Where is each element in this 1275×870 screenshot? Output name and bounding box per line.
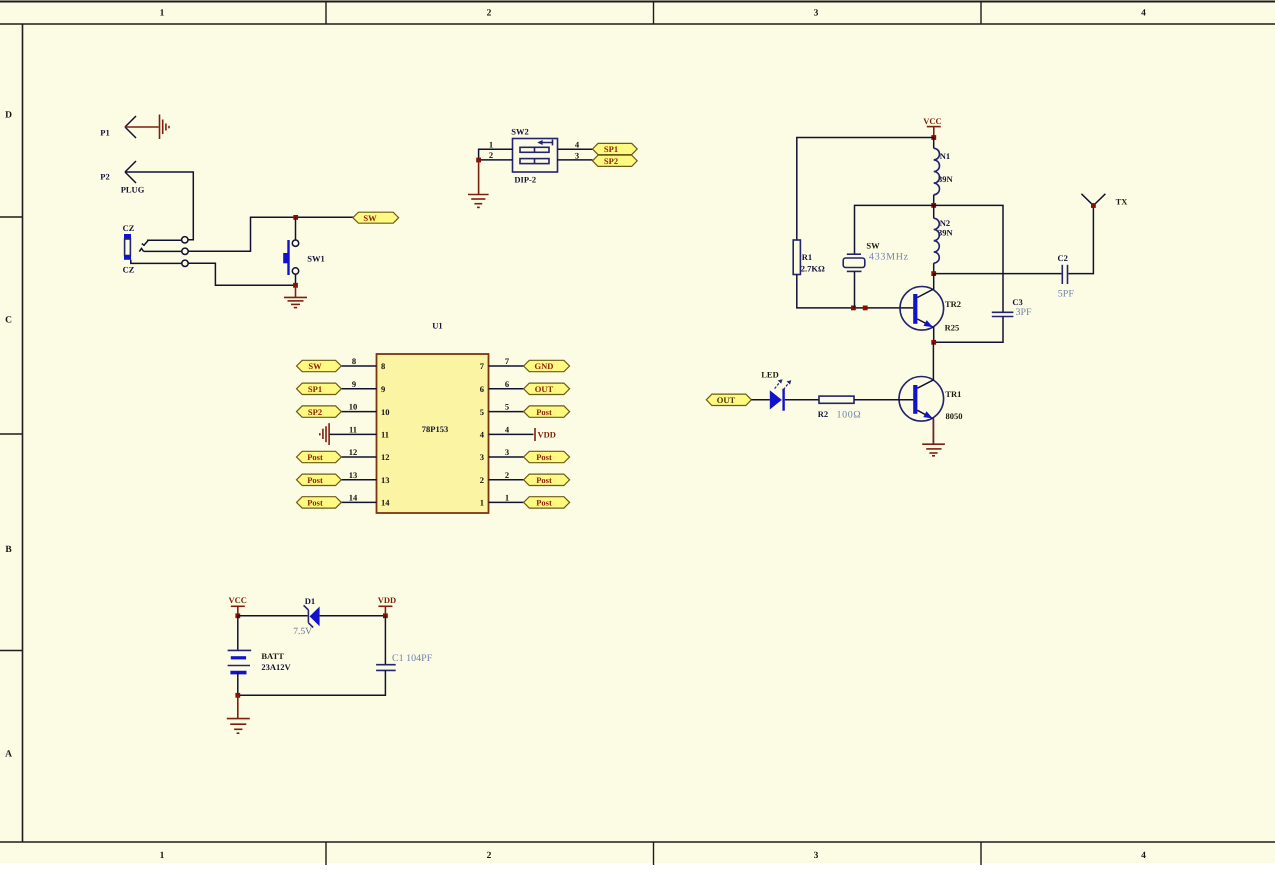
- svg-text:B: B: [5, 545, 12, 555]
- junction N1/N2: [931, 203, 936, 208]
- resistor R2: [818, 396, 862, 420]
- wire sleeve to SW1 bottom: [188, 263, 295, 285]
- port SP1: [593, 143, 638, 154]
- junction TR2 emitter / TR1 collector: [931, 340, 936, 345]
- pin 4 wire: [558, 140, 593, 150]
- svg-text:SW: SW: [866, 240, 880, 250]
- wire P2 to jack top contact: [125, 172, 193, 240]
- svg-text:11: 11: [349, 424, 357, 434]
- svg-text:100Ω: 100Ω: [837, 409, 862, 420]
- pin 2 wire: [479, 150, 513, 160]
- svg-text:6: 6: [505, 379, 509, 389]
- pin 1 wire: [479, 140, 513, 160]
- svg-text:12: 12: [381, 452, 390, 462]
- svg-text:14: 14: [349, 492, 358, 502]
- connector P2: [100, 161, 144, 195]
- junction N2 bottom: [931, 271, 936, 276]
- svg-text:6: 6: [480, 384, 484, 394]
- port Post at U1 pin2: [524, 474, 570, 485]
- wire LED to R2: [785, 399, 819, 401]
- svg-text:13: 13: [381, 475, 390, 485]
- svg-text:2: 2: [487, 9, 492, 19]
- jack ring contact: [139, 248, 188, 254]
- ground for P1: [125, 115, 169, 140]
- svg-text:CZ: CZ: [123, 223, 135, 233]
- wire junction to C3 top: [934, 205, 1003, 311]
- svg-text:5PF: 5PF: [1058, 288, 1075, 299]
- svg-text:Post: Post: [536, 498, 552, 508]
- wire D1 to VDD: [320, 615, 386, 617]
- port Post at U1 pin12: [297, 451, 342, 462]
- svg-text:SP2: SP2: [308, 407, 322, 417]
- junction at crystal bottom: [851, 306, 856, 311]
- svg-text:10: 10: [349, 402, 358, 412]
- junction below SW1: [293, 283, 298, 288]
- U1 pin 3: [480, 447, 524, 462]
- wire junction to crystal top: [855, 205, 934, 253]
- svg-text:5: 5: [480, 407, 484, 417]
- svg-text:3: 3: [575, 150, 579, 160]
- wire VCC to D1: [238, 615, 308, 617]
- svg-text:2: 2: [505, 470, 509, 480]
- LED: [761, 369, 791, 410]
- port OUT (LED drive): [706, 394, 751, 405]
- U1 pin 7: [480, 356, 524, 371]
- wire OUT to LED: [751, 399, 769, 401]
- battery BATT: [228, 616, 292, 696]
- port SP2 at U1 pin10: [297, 406, 342, 417]
- svg-text:A: A: [5, 750, 12, 760]
- svg-text:9: 9: [352, 379, 356, 389]
- port OUT at U1 pin6: [524, 383, 570, 394]
- jack sleeve contact: [131, 260, 188, 267]
- svg-text:P2: P2: [100, 172, 109, 182]
- svg-text:PLUG: PLUG: [121, 185, 145, 195]
- junction below VCC: [931, 135, 936, 140]
- svg-text:3: 3: [814, 851, 819, 861]
- svg-text:9: 9: [381, 384, 385, 394]
- svg-text:VDD: VDD: [378, 595, 396, 605]
- svg-text:1: 1: [160, 9, 165, 19]
- wire VDD down to C1: [384, 616, 386, 664]
- ground at pin 11: [320, 423, 329, 445]
- svg-text:TR1: TR1: [945, 389, 961, 399]
- svg-text:Post: Post: [307, 475, 323, 485]
- IC U1 78P153: [377, 320, 489, 513]
- port SW at U1 pin8: [297, 360, 342, 371]
- U1 pin 4 / VDD power: [480, 424, 556, 441]
- port Post at U1 pin3: [524, 451, 570, 462]
- svg-text:2: 2: [489, 150, 493, 160]
- pushbutton SW1: [283, 240, 325, 275]
- port SW: [353, 212, 399, 223]
- svg-text:R2: R2: [818, 409, 828, 419]
- svg-text:SW2: SW2: [511, 127, 528, 137]
- svg-text:Post: Post: [307, 498, 323, 508]
- svg-text:LED: LED: [761, 369, 778, 379]
- jack tip contact: [142, 237, 188, 246]
- wire C2 to antenna: [1068, 206, 1093, 274]
- svg-text:7.5V: 7.5V: [293, 627, 312, 637]
- svg-text:CZ: CZ: [123, 265, 135, 275]
- wire VCC to R1 top: [797, 138, 934, 241]
- inductor N2: [934, 205, 954, 273]
- svg-text:3: 3: [505, 447, 509, 457]
- U1 pin 10: [341, 402, 389, 417]
- wire ring contact to SW node: [188, 217, 295, 251]
- svg-text:8050: 8050: [946, 411, 963, 421]
- ground below TR1: [922, 419, 945, 456]
- svg-text:1: 1: [489, 140, 493, 150]
- transistor TR1: [899, 342, 963, 443]
- svg-text:SW: SW: [363, 213, 377, 223]
- svg-text:C: C: [5, 316, 12, 326]
- port Post at U1 pin5: [524, 406, 570, 417]
- svg-text:2: 2: [480, 475, 484, 485]
- svg-text:Post: Post: [536, 475, 552, 485]
- port GND at U1 pin7: [524, 360, 570, 371]
- svg-text:8: 8: [352, 356, 356, 366]
- svg-text:VDD: VDD: [538, 430, 556, 440]
- svg-text:2.7KΩ: 2.7KΩ: [801, 263, 825, 273]
- connector P1: [100, 116, 136, 138]
- svg-text:39N: 39N: [938, 174, 954, 184]
- DIP switch SW2: [511, 127, 557, 185]
- svg-text:U1: U1: [432, 320, 442, 330]
- svg-text:D1: D1: [305, 596, 315, 606]
- power VCC (RF): [923, 116, 941, 137]
- svg-text:Post: Post: [307, 452, 323, 462]
- resistor R1: [793, 240, 825, 275]
- svg-text:C1 104PF: C1 104PF: [392, 653, 433, 664]
- svg-text:39N: 39N: [938, 227, 954, 237]
- svg-text:VCC: VCC: [923, 116, 941, 126]
- svg-text:10: 10: [381, 407, 390, 417]
- svg-text:12: 12: [349, 447, 358, 457]
- U1 pin 11: [329, 424, 389, 439]
- svg-text:SW: SW: [308, 361, 322, 371]
- port Post at U1 pin13: [297, 474, 342, 485]
- ground below SW2: [468, 160, 489, 207]
- svg-text:SP2: SP2: [604, 156, 618, 166]
- svg-text:3: 3: [814, 9, 819, 19]
- svg-text:4: 4: [1141, 9, 1146, 19]
- svg-text:Post: Post: [536, 452, 552, 462]
- crystal SW 433MHz: [843, 240, 909, 308]
- junction battery bottom: [235, 693, 240, 698]
- svg-text:GND: GND: [535, 361, 554, 371]
- power VDD: [378, 595, 396, 616]
- svg-text:14: 14: [381, 498, 390, 508]
- svg-text:1: 1: [160, 851, 165, 861]
- wire to C2: [934, 273, 1062, 275]
- U1 pin 5: [480, 402, 524, 417]
- wire R2 to TR1 base: [854, 399, 913, 401]
- svg-text:Post: Post: [536, 407, 552, 417]
- svg-text:BATT: BATT: [261, 651, 284, 661]
- svg-text:R25: R25: [945, 322, 960, 332]
- U1 pin 6: [480, 379, 524, 394]
- svg-text:D: D: [5, 110, 12, 120]
- svg-text:DIP-2: DIP-2: [514, 174, 536, 184]
- svg-text:1: 1: [480, 498, 484, 508]
- junction right of crystal: [863, 306, 868, 311]
- svg-text:N1: N1: [940, 151, 950, 161]
- wire R1 bottom to TR2 base: [797, 275, 914, 308]
- svg-text:VCC: VCC: [228, 595, 246, 605]
- capacitor C1: [376, 653, 433, 671]
- svg-text:3PF: 3PF: [1016, 307, 1033, 318]
- svg-text:P1: P1: [100, 128, 109, 138]
- U1 pin 2: [480, 470, 524, 485]
- capacitor C3: [992, 297, 1032, 318]
- port SP2: [593, 155, 638, 166]
- wire SW1 to ground: [295, 274, 297, 285]
- svg-text:SW1: SW1: [307, 253, 324, 263]
- port Post at U1 pin1: [524, 497, 570, 508]
- pin 3 wire: [558, 150, 593, 160]
- svg-text:4: 4: [1141, 851, 1146, 861]
- svg-text:23A12V: 23A12V: [261, 662, 291, 672]
- svg-text:13: 13: [349, 470, 358, 480]
- transistor TR2: [900, 274, 961, 343]
- ground below SW1: [284, 285, 307, 307]
- svg-text:433MHz: 433MHz: [869, 251, 909, 262]
- U1 pin 8: [341, 356, 385, 371]
- audio jack CZ: [123, 223, 135, 275]
- svg-text:8: 8: [381, 361, 385, 371]
- wire SW node to port: [296, 216, 354, 218]
- port SP1 at U1 pin9: [297, 383, 342, 394]
- power VCC (battery): [228, 595, 246, 616]
- svg-text:78P153: 78P153: [422, 424, 448, 434]
- junction below VCC: [235, 613, 240, 618]
- svg-text:OUT: OUT: [717, 395, 736, 405]
- port Post at U1 pin14: [297, 497, 342, 508]
- antenna TX: [1081, 194, 1128, 208]
- svg-text:SP1: SP1: [604, 144, 618, 154]
- U1 pin 1: [480, 492, 524, 507]
- inductor N1: [934, 138, 954, 206]
- junction at SW node: [293, 215, 298, 220]
- capacitor C2: [1058, 253, 1075, 299]
- svg-text:TR2: TR2: [945, 299, 961, 309]
- U1 pin 13: [341, 470, 389, 485]
- svg-text:R1: R1: [802, 252, 812, 262]
- svg-text:TX: TX: [1116, 196, 1129, 206]
- ground below battery: [227, 695, 250, 733]
- zener diode D1: [293, 596, 319, 637]
- svg-text:C2: C2: [1058, 253, 1068, 263]
- svg-text:C3: C3: [1012, 297, 1022, 307]
- wire SW node down to SW1: [295, 217, 297, 240]
- svg-text:2: 2: [487, 851, 492, 861]
- svg-text:OUT: OUT: [535, 384, 554, 394]
- svg-text:1: 1: [505, 492, 509, 502]
- svg-text:SP1: SP1: [308, 384, 322, 394]
- junction at SW2 ground: [476, 158, 481, 163]
- wire C3 bottom to TR2 emitter: [934, 317, 1003, 343]
- svg-text:11: 11: [381, 430, 389, 440]
- U1 pin 14: [341, 492, 390, 507]
- svg-text:5: 5: [505, 402, 509, 412]
- svg-text:3: 3: [480, 452, 484, 462]
- wire C1 bottom to gnd rail: [238, 670, 386, 695]
- U1 pin 12: [341, 447, 389, 462]
- junction below VDD: [383, 613, 388, 618]
- U1 pin 9: [341, 379, 385, 394]
